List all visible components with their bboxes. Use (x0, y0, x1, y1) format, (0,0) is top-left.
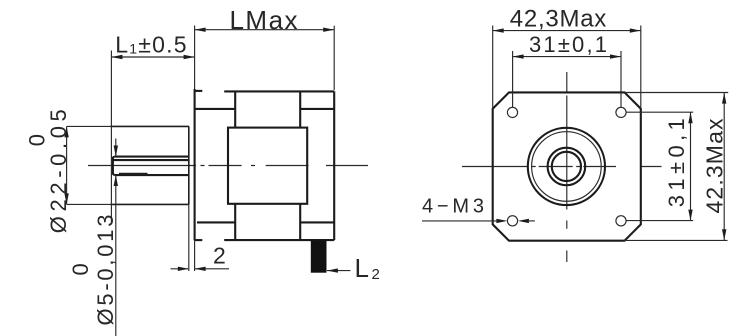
svg-text:42,3Max: 42,3Max (510, 6, 607, 33)
svg-text:0: 0 (25, 134, 50, 146)
shaft flat bottom overlay (119, 173, 148, 175)
pilot boss chamfer circle (532, 132, 602, 202)
body top edge (224, 90, 334, 92)
body section verticals rear (299, 91, 301, 240)
dimension 42.3Max top (493, 30, 641, 32)
dimension 31±0,1 top (513, 56, 621, 58)
mounting hole top-right (616, 107, 626, 117)
svg-text:LMax: LMax (230, 5, 298, 35)
boss bottom edge + leader (67, 203, 111, 205)
svg-text:31±0,1: 31±0,1 (529, 32, 607, 57)
flange face extension below for dim 2 (194, 240, 196, 271)
svg-text:Ø5-0,013: Ø5-0,013 (93, 215, 118, 326)
boss top edge + leader to Ø22 label (67, 125, 111, 127)
svg-text:2: 2 (213, 243, 226, 269)
mounting hole top-left (507, 107, 517, 117)
leader 4-M3 (422, 220, 502, 222)
body section verticals front (234, 91, 236, 240)
dimension line Ø5 lower arrow + leader to label (115, 175, 117, 336)
flange top stub (195, 90, 203, 92)
dimension L1±0.5 (111, 56, 194, 58)
svg-text:2: 2 (372, 266, 380, 283)
rear lead wires (black bar) (311, 240, 327, 272)
stator middle rectangle (228, 128, 307, 204)
flange front face (with extension up to LMax line) (194, 26, 196, 90)
centerline vertical (right view) (566, 72, 568, 262)
flange bottom stub (195, 239, 203, 241)
dimension L Max (195, 29, 335, 31)
body bottom step lines (197, 221, 334, 223)
mounting hole bottom-right (616, 216, 626, 226)
svg-text:42.3Max: 42.3Max (701, 118, 727, 214)
svg-text:0: 0 (68, 263, 93, 275)
right arrow at hole (529, 220, 535, 222)
extension lines right 42.3 dim (625, 93, 729, 241)
dimension 31±0.1 right (690, 112, 692, 220)
dimension 2 (boss height) arrows (171, 268, 189, 270)
svg-text:L: L (355, 253, 369, 283)
dimension line Ø22 (66, 126, 68, 204)
shaft circle (552, 152, 581, 181)
svg-text:L1±0.5: L1±0.5 (115, 32, 187, 58)
bearing boss circle (548, 148, 586, 186)
centerline horizontal (right view) (462, 166, 662, 168)
extension lines top dims (493, 26, 641, 109)
shaft top line (115, 156, 189, 158)
dimension 42.3Max right (723, 93, 725, 241)
svg-text:4−M3: 4−M3 (422, 196, 484, 218)
dimension L2 arrow (327, 270, 351, 272)
rear face (with extension up) (333, 26, 335, 90)
extension line L1 left / shaft end (110, 51, 112, 225)
pilot boss outer circle Ø22 (528, 128, 605, 205)
boss front face (188, 126, 190, 204)
extension lines right 31 dim (626, 112, 693, 220)
flange outline (chamfered square) (493, 92, 641, 240)
mounting hole bottom-left (507, 216, 517, 226)
shaft flat line (113, 159, 189, 161)
shaft end face (113, 157, 115, 175)
body bottom edge (224, 239, 334, 241)
body top step lines (195, 108, 335, 110)
dimension line Ø5 upper arrow (115, 139, 117, 157)
boss face extension line down (188, 204, 190, 271)
centerline horizontal (left view) (88, 165, 368, 167)
shaft bottom line (115, 174, 189, 176)
